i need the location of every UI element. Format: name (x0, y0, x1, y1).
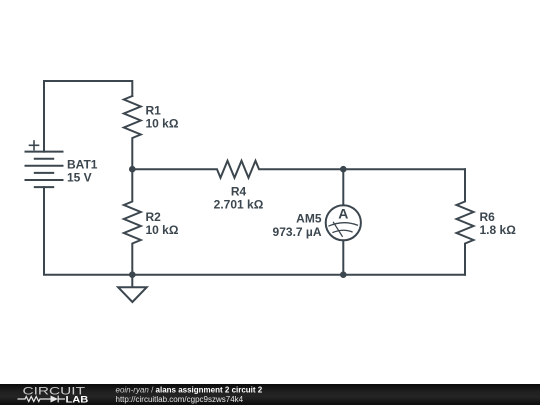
svg-text:15 V: 15 V (67, 170, 92, 184)
svg-text:R6: R6 (480, 210, 496, 224)
svg-text:A: A (338, 206, 348, 222)
svg-text:1.8 kΩ: 1.8 kΩ (480, 223, 517, 237)
svg-text:LAB: LAB (66, 395, 89, 405)
svg-text:BAT1: BAT1 (67, 157, 98, 171)
svg-text:10 kΩ: 10 kΩ (146, 117, 179, 131)
svg-text:R2: R2 (146, 210, 162, 224)
svg-text:http://circuitlab.com/cgpc9szw: http://circuitlab.com/cgpc9szws74k4 (116, 395, 244, 404)
svg-text:AM5: AM5 (296, 212, 322, 226)
svg-text:973.7 µA: 973.7 µA (273, 225, 322, 239)
svg-text:2.701 kΩ: 2.701 kΩ (214, 198, 264, 212)
svg-text:R1: R1 (146, 104, 162, 118)
svg-text:R4: R4 (231, 185, 247, 199)
svg-text:10 kΩ: 10 kΩ (146, 223, 179, 237)
svg-text:eoin-ryan / alans assignment 2: eoin-ryan / alans assignment 2 circuit 2 (116, 385, 263, 394)
